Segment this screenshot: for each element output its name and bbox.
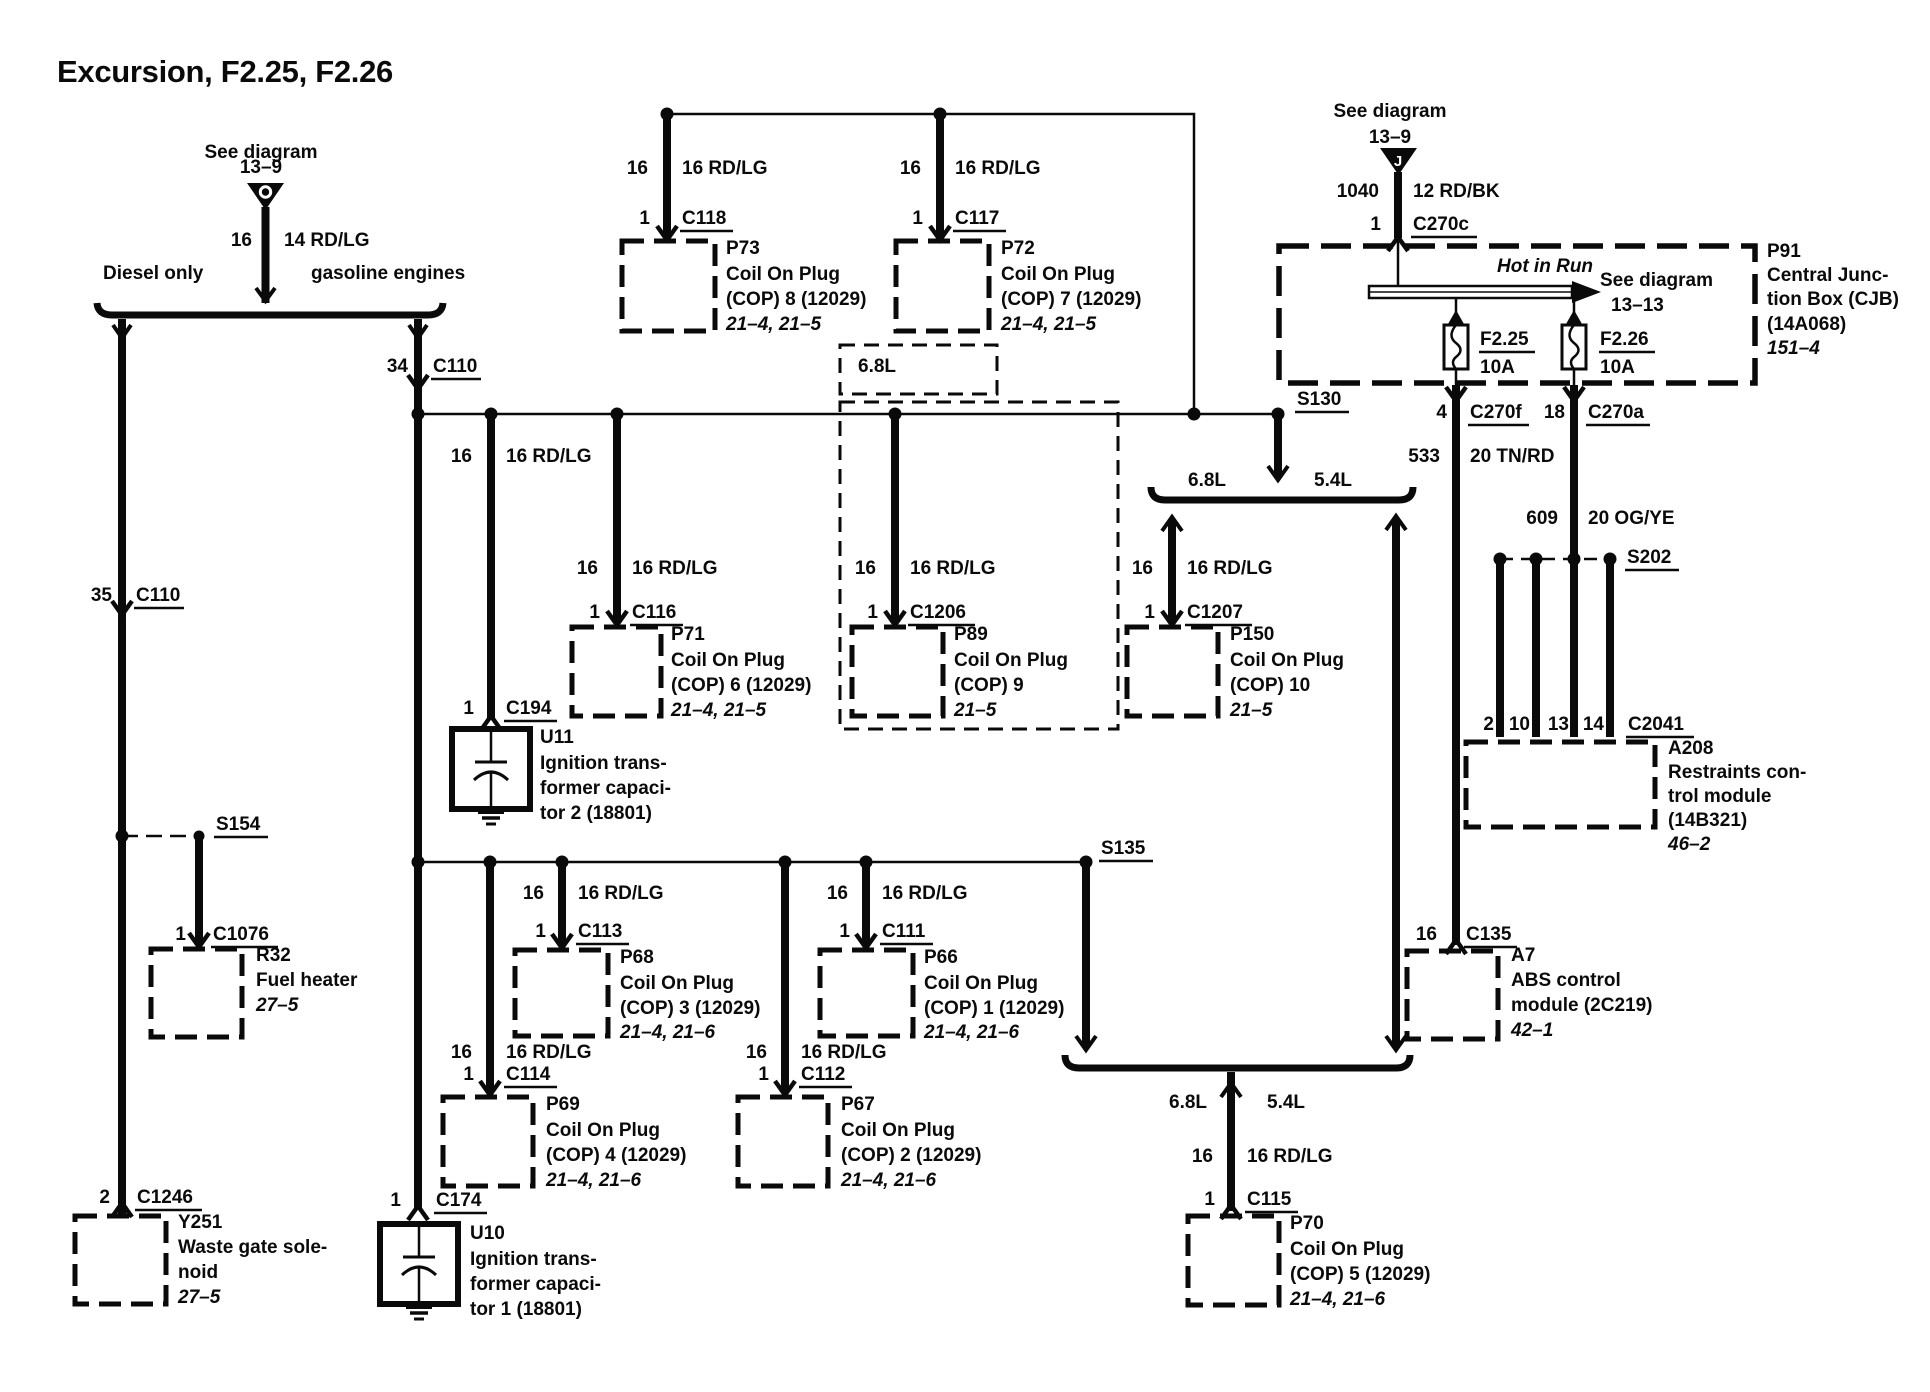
junction dot C112 branch / y=862 [779,856,792,869]
svg-text:6.8L: 6.8L [858,356,896,377]
chevron connector C117 [930,226,950,240]
svg-text:S130: S130 [1297,389,1341,410]
junction dot C114 branch / y=862 [484,856,497,869]
junction dot C110 wire / y=862 [412,856,425,869]
wire: C1206 branch (x=895) [891,414,899,622]
svg-text:42–1: 42–1 [1510,1020,1553,1041]
junction dot C113 branch / y=862 [556,856,569,869]
svg-text:S154: S154 [216,814,261,835]
chevron top of C1207 branch [1162,517,1182,531]
connector box P70 Coil On Plug 5 [1188,1216,1279,1305]
svg-text:C110: C110 [433,356,477,377]
svg-text:C112: C112 [801,1064,845,1085]
svg-text:(COP) 1 (12029): (COP) 1 (12029) [924,998,1064,1019]
wire: long 5.4L branch (x=1396) [1392,518,1400,1048]
svg-text:16: 16 [451,1042,472,1063]
wire: S154 down to fuel heater (x=199) [195,836,203,944]
wire: S202 leg to pin 14 [1606,559,1614,737]
svg-text:(14B321): (14B321) [1668,810,1747,831]
svg-text:20 TN/RD: 20 TN/RD [1470,446,1554,467]
svg-text:533: 533 [1408,446,1440,467]
junction dot S202 leg 2 [1494,553,1507,566]
svg-text:C1207: C1207 [1187,602,1243,623]
wire: C112 branch (x=785) [781,862,789,1092]
wire: left diesel C110 vertical (x=122) [118,319,126,1214]
svg-text:F2.26: F2.26 [1600,329,1649,350]
svg-text:1: 1 [463,1064,474,1085]
svg-text:609: 609 [1526,508,1558,529]
node: horizontal distribution line y=862 [418,861,1086,864]
svg-text:21–4, 21–5: 21–4, 21–5 [670,700,767,721]
svg-text:1: 1 [535,921,546,942]
connector box P73 Coil On Plug 8 [622,241,715,331]
chevron arrow top of left C110 wire [113,325,131,338]
junction dot C111 branch / y=862 [860,856,873,869]
svg-text:R32: R32 [256,945,291,966]
svg-text:16 RD/LG: 16 RD/LG [910,558,996,579]
svg-text:6.8L: 6.8L [1188,470,1226,491]
svg-text:(COP) 4 (12029): (COP) 4 (12029) [546,1145,686,1166]
chevron connector C113 [552,934,572,948]
wire: S202 leg to pin 2 [1496,559,1504,737]
junction dot C1206 branch / y=414 [889,408,902,421]
svg-text:Coil On Plug: Coil On Plug [546,1120,660,1141]
connector box P67 Coil On Plug 2 [738,1097,828,1186]
svg-text:C270c: C270c [1413,214,1469,235]
svg-text:16 RD/LG: 16 RD/LG [1247,1146,1333,1167]
connector box P71 Coil On Plug 6 [572,627,661,716]
svg-text:1: 1 [758,1064,769,1085]
wire: C118 branch (x=667) [663,114,671,237]
svg-text:46–2: 46–2 [1667,834,1711,855]
svg-text:16: 16 [231,230,252,251]
svg-text:21–5: 21–5 [953,700,997,721]
svg-text:C114: C114 [506,1064,551,1085]
svg-text:C118: C118 [682,208,726,229]
svg-text:1: 1 [1370,214,1381,235]
svg-text:5.4L: 5.4L [1314,470,1352,491]
junction dot splice S130 [1272,408,1285,421]
connector box P72 Coil On Plug 7 [896,241,989,331]
arrow at bottom of 14 RD/LG wire [256,288,275,301]
ground symbol U10 [406,1305,432,1309]
wire: C114 branch (x=490) [486,862,494,1092]
wire: 20 TN/RD (x=1456) [1452,385,1460,945]
chevron connector C1207 [1162,611,1182,625]
svg-text:16 RD/LG: 16 RD/LG [1187,558,1273,579]
svg-text:Ignition trans-: Ignition trans- [540,753,667,774]
svg-text:Coil On Plug: Coil On Plug [620,973,734,994]
svg-text:P150: P150 [1230,624,1274,645]
svg-text:P67: P67 [841,1094,875,1115]
component box R32 Fuel heater [151,949,242,1037]
chevron connector C174 (points up) [408,1206,428,1220]
chevron connector C118 [657,226,677,240]
svg-text:former capaci-: former capaci- [540,778,671,799]
svg-text:C111: C111 [882,921,926,942]
wire: C116 branch (x=617) [613,414,621,622]
junction dot top loop / y=414 [1188,408,1201,421]
svg-text:21–5: 21–5 [1229,700,1273,721]
capacitor U11 box [452,729,530,809]
svg-text:14 RD/LG: 14 RD/LG [284,230,370,251]
svg-text:F2.25: F2.25 [1480,329,1529,350]
svg-text:former capaci-: former capaci- [470,1274,601,1295]
svg-text:Hot in Run: Hot in Run [1497,256,1593,277]
engine split brace 1 (6.8L / 5.4L) [1151,487,1413,500]
svg-text:Restraints con-: Restraints con- [1668,762,1806,783]
svg-text:16: 16 [1192,1146,1213,1167]
fuse F2.25 output through box edge [1455,369,1458,385]
chevron connector C116 [607,611,627,625]
svg-text:16 RD/LG: 16 RD/LG [682,158,768,179]
svg-text:C110: C110 [136,585,180,606]
svg-text:16: 16 [827,883,848,904]
svg-text:P66: P66 [924,947,958,968]
fuse F2.26 output through box edge [1573,369,1576,385]
chevron connector C115 (points up) [1221,1205,1241,1219]
fuse F2.25 [1444,325,1468,369]
chevron arrow top of right C110 wire [409,325,427,338]
svg-text:Coil On Plug: Coil On Plug [1290,1239,1404,1260]
connector box P150 Coil On Plug 10 [1127,627,1218,716]
svg-text:16 RD/LG: 16 RD/LG [506,446,592,467]
svg-text:P68: P68 [620,947,654,968]
svg-text:C117: C117 [955,208,999,229]
component box A208 Restraints control module [1466,742,1655,827]
chevron top of 5.4L long branch [1386,516,1406,530]
component box A7 ABS control module [1407,951,1498,1039]
svg-text:21–4, 21–6: 21–4, 21–6 [1289,1289,1386,1310]
svg-text:P91: P91 [1767,241,1801,262]
svg-text:P73: P73 [726,238,760,259]
svg-text:16: 16 [523,883,544,904]
engine merge brace 2 (6.8L / 5.4L) [1065,1055,1410,1068]
svg-text:(COP) 10: (COP) 10 [1230,675,1310,696]
svg-text:16: 16 [746,1042,767,1063]
svg-text:U11: U11 [540,727,574,748]
svg-text:1: 1 [867,602,878,623]
node: horizontal distribution line y=414 [418,413,1278,416]
svg-text:J: J [1394,153,1402,170]
svg-text:1: 1 [589,602,600,623]
chevron connector C1206 [885,611,905,625]
junction dot C116 branch / y=414 [611,408,624,421]
hot bus bar with arrow [1369,286,1572,298]
svg-text:Y251: Y251 [178,1212,223,1233]
wire: S130 down to engine brace [1274,414,1282,478]
svg-text:2: 2 [99,1187,110,1208]
wire: 12 RD/BK from triangle J to C270c [1394,172,1402,238]
svg-text:A7: A7 [1511,945,1535,966]
svg-text:C1206: C1206 [910,602,966,623]
junction dot S202 leg 13 [1568,553,1581,566]
svg-text:Excursion, F2.25, F2.26: Excursion, F2.25, F2.26 [57,54,393,89]
svg-text:10A: 10A [1600,357,1635,378]
svg-text:(14A068): (14A068) [1767,314,1846,335]
svg-text:16 RD/LG: 16 RD/LG [955,158,1041,179]
svg-text:1: 1 [912,208,923,229]
wire: 20 OG/YE (x=1574) [1570,385,1578,558]
junction dot splice S154 on diesel wire [116,830,129,843]
svg-text:16: 16 [577,558,598,579]
svg-text:C2041: C2041 [1628,714,1684,735]
svg-text:Diesel only: Diesel only [103,263,204,284]
svg-text:P72: P72 [1001,238,1035,259]
wire: right gasoline C110 vertical (x=418) [414,319,422,1210]
svg-text:1: 1 [390,1190,401,1211]
chevron connector C1246 (points up) [112,1203,132,1217]
svg-text:13: 13 [1548,714,1569,735]
svg-text:1040: 1040 [1337,181,1379,202]
svg-text:P89: P89 [954,624,988,645]
chevron connector C112 [775,1081,795,1095]
svg-text:1: 1 [1204,1189,1215,1210]
svg-text:21–4, 21–6: 21–4, 21–6 [840,1170,937,1191]
svg-text:Coil On Plug: Coil On Plug [924,973,1038,994]
chevron connector C114 [480,1081,500,1095]
svg-text:(COP) 8 (12029): (COP) 8 (12029) [726,289,866,310]
junction dot C117 branch / y=114 [934,108,947,121]
capacitor symbol U10 [418,1224,421,1257]
svg-text:(COP) 2 (12029): (COP) 2 (12029) [841,1145,981,1166]
connector symbol: triangle with circle (from diagram 13-9) [247,183,284,210]
svg-text:2: 2 [1483,714,1494,735]
wire: S154 splice link [122,835,199,838]
wire: S135 down to brace 2 [1082,862,1090,1048]
svg-text:trol module: trol module [1668,786,1771,807]
wire: triangle to bus (14 RD/LG) [262,207,270,303]
svg-text:21–4, 21–5: 21–4, 21–5 [725,314,822,335]
chevron connector C110-35 [112,601,132,615]
svg-text:35: 35 [91,585,113,606]
wire: S202 leg to pin 13 [1570,559,1578,737]
svg-text:21–4, 21–6: 21–4, 21–6 [619,1022,716,1043]
svg-text:(COP) 9: (COP) 9 [954,675,1024,696]
svg-text:16: 16 [1132,558,1153,579]
component box Y251 Waste gate solenoid [75,1216,166,1304]
svg-text:13–13: 13–13 [1611,295,1664,316]
svg-text:1: 1 [839,921,850,942]
svg-text:P70: P70 [1290,1213,1324,1234]
svg-text:ABS control: ABS control [1511,970,1621,991]
connector symbol: triangle J (from diagram 13-9) [1380,148,1417,175]
svg-text:16 RD/LG: 16 RD/LG [882,883,968,904]
svg-text:C115: C115 [1247,1189,1292,1210]
svg-text:noid: noid [178,1262,218,1283]
svg-text:16 RD/LG: 16 RD/LG [632,558,718,579]
svg-text:Coil On Plug: Coil On Plug [954,650,1068,671]
junction dot S154 branch [194,831,205,842]
svg-text:1: 1 [639,208,650,229]
svg-text:16 RD/LG: 16 RD/LG [578,883,664,904]
svg-text:13–9: 13–9 [240,157,282,178]
junction dot U11 branch / y=414 [485,408,498,421]
svg-text:C1246: C1246 [137,1187,193,1208]
svg-text:P69: P69 [546,1094,580,1115]
wire: C1207 branch (x=1172) [1168,519,1176,622]
svg-text:1: 1 [175,924,186,945]
fuse F2.26 [1562,325,1586,369]
svg-text:C116: C116 [632,602,676,623]
svg-text:S135: S135 [1101,838,1146,859]
connector box P89 Coil On Plug 9 [852,627,943,716]
connector box P66 Coil On Plug 1 [820,950,913,1036]
svg-text:See diagram: See diagram [1334,101,1447,122]
wire: U11 capacitor branch (x=491) [487,414,495,718]
svg-text:Coil On Plug: Coil On Plug [1230,650,1344,671]
wire: C113 branch (x=562) [558,862,566,945]
svg-text:C113: C113 [578,921,622,942]
chevron below brace 2 (points up) [1221,1083,1241,1097]
junction dot splice S135 [1080,856,1093,869]
junction dot C118 branch / y=114 [661,108,674,121]
chevron connector C270f [1446,387,1466,401]
svg-text:(COP) 7 (12029): (COP) 7 (12029) [1001,289,1141,310]
fuse F2.26 feed [1573,298,1576,325]
svg-text:Coil On Plug: Coil On Plug [841,1120,955,1141]
svg-text:P71: P71 [671,624,705,645]
svg-text:Waste gate sole-: Waste gate sole- [178,1237,327,1258]
connector box P69 Coil On Plug 4 [443,1097,533,1186]
svg-text:Coil On Plug: Coil On Plug [1001,264,1115,285]
svg-text:16 RD/LG: 16 RD/LG [801,1042,887,1063]
wire: feed from C270c into bus bar [1397,240,1400,286]
6.8L engine region box (large, around COP 9) [840,402,1118,729]
capacitor symbol U11 [490,729,493,762]
svg-text:Fuel heater: Fuel heater [256,970,358,991]
wire: top feed loop to COP 8/7 (thin) [667,114,1194,414]
capacitor U10 box [380,1224,458,1304]
svg-text:Central Junc-: Central Junc- [1767,265,1888,286]
svg-text:10: 10 [1509,714,1530,735]
svg-text:16: 16 [855,558,876,579]
svg-text:27–5: 27–5 [177,1287,221,1308]
svg-text:(COP) 5 (12029): (COP) 5 (12029) [1290,1264,1430,1285]
bus line (diesel/gasoline split) [97,303,443,315]
svg-text:10A: 10A [1480,357,1515,378]
wire: C115 branch below brace 2 (x=1231) [1227,1072,1235,1211]
svg-text:13–9: 13–9 [1369,127,1411,148]
svg-text:A208: A208 [1668,738,1713,759]
svg-text:S202: S202 [1627,547,1671,568]
chevron connector C111 [856,934,876,948]
splice S202 line [1500,558,1610,561]
svg-text:Coil On Plug: Coil On Plug [726,264,840,285]
svg-text:C174: C174 [436,1190,482,1211]
svg-text:(COP) 3 (12029): (COP) 3 (12029) [620,998,760,1019]
svg-text:20 OG/YE: 20 OG/YE [1588,508,1675,529]
svg-text:(COP) 6 (12029): (COP) 6 (12029) [671,675,811,696]
svg-text:16: 16 [627,158,648,179]
svg-text:Coil On Plug: Coil On Plug [671,650,785,671]
svg-text:12 RD/BK: 12 RD/BK [1413,181,1500,202]
svg-text:16: 16 [900,158,921,179]
Central Junction Box P91 dashed box [1279,246,1755,383]
svg-text:21–4, 21–6: 21–4, 21–6 [923,1022,1020,1043]
svg-text:5.4L: 5.4L [1267,1092,1305,1113]
svg-text:C1076: C1076 [213,924,269,945]
svg-text:gasoline engines: gasoline engines [311,263,465,284]
svg-text:34: 34 [387,356,409,377]
svg-text:C194: C194 [506,698,552,719]
chevron connector C110-34 [408,375,428,389]
svg-text:151–4: 151–4 [1767,338,1820,359]
svg-text:module (2C219): module (2C219) [1511,995,1652,1016]
svg-text:21–4, 21–5: 21–4, 21–5 [1000,314,1097,335]
svg-text:21–4, 21–6: 21–4, 21–6 [545,1170,642,1191]
svg-text:16 RD/LG: 16 RD/LG [506,1042,592,1063]
chevron connector C194 (points up) [481,716,501,730]
svg-text:C270f: C270f [1470,402,1522,423]
ground symbol U11 [478,810,504,814]
svg-text:Ignition trans-: Ignition trans- [470,1249,597,1270]
connector box P68 Coil On Plug 3 [515,950,608,1036]
junction dot C110 wire / y=414 [412,408,425,421]
svg-text:16: 16 [451,446,472,467]
wire: C111 branch (x=866) [862,862,870,945]
svg-text:16: 16 [1416,924,1437,945]
svg-text:C135: C135 [1466,924,1512,945]
fuse F2.25 feed [1455,298,1458,325]
chevron connector C270a [1564,387,1584,401]
svg-text:tor 2 (18801): tor 2 (18801) [540,803,652,824]
svg-text:4: 4 [1436,402,1447,423]
svg-text:6.8L: 6.8L [1169,1092,1207,1113]
chevron connector C1076 [189,933,209,947]
svg-text:U10: U10 [470,1223,505,1244]
svg-text:C270a: C270a [1588,402,1644,423]
svg-text:See diagram: See diagram [1600,270,1713,291]
junction dot S202 leg 14 [1604,553,1617,566]
svg-text:14: 14 [1583,714,1605,735]
svg-text:18: 18 [1544,402,1565,423]
6.8L engine label box (small) [840,345,997,394]
wire: S202 leg to pin 10 [1532,559,1540,737]
junction dot S202 leg 10 [1530,553,1543,566]
chevron connector C270c (points up) [1388,237,1408,251]
wire: C117 branch (x=940) [936,114,944,237]
svg-text:1: 1 [1144,602,1155,623]
svg-text:tion Box (CJB): tion Box (CJB) [1767,289,1899,310]
svg-text:1: 1 [463,698,474,719]
svg-text:27–5: 27–5 [255,995,299,1016]
chevron connector C135 (points up) [1446,940,1466,954]
chevron bottom of 5.4L long branch at brace 2 [1386,1036,1406,1050]
svg-text:tor 1 (18801): tor 1 (18801) [470,1299,582,1320]
